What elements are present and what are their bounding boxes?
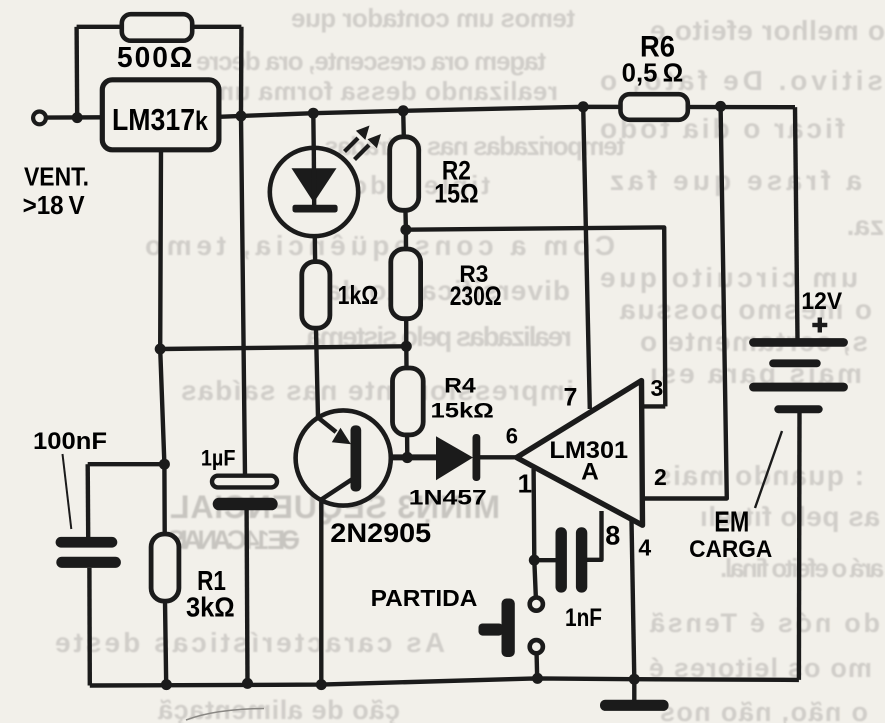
wire op-amp pin 2 stub and riser to supply bus: [642, 106, 727, 498]
svg-text:2N2905: 2N2905: [330, 518, 431, 548]
wire ground symbol stub: [632, 679, 636, 701]
wire 100nF bottom lead to ground bus corner: [87, 568, 92, 686]
capacitor 1nF plate 1: [556, 527, 567, 592]
pushbutton S1 actuator stem: [479, 624, 504, 636]
LED D1 light arrow 2: [355, 145, 370, 160]
svg-text:7: 7: [564, 383, 578, 411]
wire R2-R3 node to op-amp pin 3: [406, 227, 665, 406]
capacitor C 1uF top plate (hollow): [212, 476, 277, 488]
svg-text:za.: za.: [847, 210, 884, 241]
svg-text:1µF: 1µF: [201, 445, 236, 470]
transistor Q1 2N2905 circle: [296, 410, 391, 505]
LED D1 vertical lead inside: [312, 150, 317, 208]
svg-text:>18 V: >18 V: [23, 192, 85, 220]
resistor 1k body: [302, 262, 330, 329]
node: pin4 / ground symbol: [629, 674, 640, 685]
transistor Q1 base bar: [351, 425, 362, 491]
resistor R4 body: [393, 368, 424, 435]
resistor 500 ohm body: [122, 14, 192, 41]
wire transistor collector to ground bus: [319, 500, 323, 685]
transistor Q1 collector lead: [321, 478, 354, 500]
wire diode cathode to op-amp output pin 6: [479, 455, 518, 459]
wire 500-ohm loop right drop to output node: [239, 27, 244, 116]
wire op-amp pin 4 down to ground bus: [632, 520, 635, 679]
pushbutton S1 top terminal: [530, 598, 543, 611]
wire 1uF bottom lead to ground bus: [244, 510, 249, 683]
node: pin2 supply tap: [715, 101, 726, 112]
svg-text:VENT.: VENT.: [24, 164, 89, 192]
battery B1 plate 3 long: [749, 383, 848, 392]
wire 500-ohm feedback loop top: [77, 25, 242, 29]
svg-text:: quando mais: : quando mais: [656, 460, 864, 491]
svg-text:LM317k: LM317k: [112, 102, 209, 137]
wire button bottom terminal to ground bus: [534, 655, 539, 679]
wire 100nF tap from ADJ line: [88, 462, 165, 466]
svg-text:1N457: 1N457: [409, 486, 487, 510]
diode D2 1N457 cathode bar: [473, 434, 481, 481]
node: 100nF tap on ADJ line: [159, 459, 170, 470]
resistor R6 body: [621, 94, 688, 120]
LED D1 anode triangle: [292, 168, 337, 202]
svg-text:500Ω: 500Ω: [117, 42, 194, 74]
svg-text:R4: R4: [444, 373, 476, 397]
resistor R2 body: [390, 137, 419, 211]
node: pin7 supply tap: [578, 101, 589, 112]
wire 1nF right plate to pin 8: [586, 511, 602, 560]
node: 1uF ground: [242, 678, 253, 689]
battery B1 plate 2 short: [769, 359, 821, 367]
node: R1 ground: [161, 679, 172, 690]
capacitor 1nF plate 2: [576, 527, 587, 592]
node: input / 500-ohm / LM317 in: [72, 112, 83, 123]
capacitor 100nF plate 2: [56, 557, 121, 568]
wire 500-ohm feedback loop left riser: [74, 27, 79, 118]
LED D1 light arrow 1: [345, 138, 359, 152]
svg-text:1: 1: [518, 468, 532, 498]
svg-text:1kΩ: 1kΩ: [338, 280, 379, 310]
wire op-amp pin 3 stub: [642, 404, 665, 408]
op-amp U2 LM301A triangle: [517, 381, 643, 526]
svg-text:a frase que faz: a frase que faz: [610, 165, 862, 196]
wire supply bus right corner down to battery +: [795, 107, 798, 340]
svg-text:CARGA: CARGA: [689, 536, 772, 563]
battery B1 plate 4 short: [774, 405, 822, 413]
wire op-amp pin 7 up to supply bus: [583, 107, 590, 409]
wire LED / 1k / transistor emitter branch: [313, 113, 318, 417]
svg-text:ção de alimentaçã: ção de alimentaçã: [157, 695, 400, 723]
node: R2 / R3 / pin3 line: [400, 224, 411, 235]
svg-text:A: A: [581, 458, 599, 485]
faint scratch mark bottom left: [186, 709, 264, 721]
node: R2 top tap: [398, 105, 409, 116]
decorative bleed-through text from reverse page: [0, 0, 1, 1]
svg-text:do nós é Tensã: do nós é Tensã: [649, 608, 880, 638]
wire 100nF top lead: [85, 464, 90, 537]
resistor R1 body: [151, 534, 179, 601]
svg-text:8: 8: [605, 520, 620, 550]
svg-text:15Ω: 15Ω: [434, 179, 479, 209]
LED D1 circle: [270, 148, 358, 236]
wire pin-1 node to 1nF left plate: [534, 558, 556, 562]
node: LM317 out / 500-ohm / 1uF: [236, 111, 247, 122]
svg-text:EM: EM: [714, 507, 749, 539]
pushbutton S1 actuator bar: [502, 599, 515, 658]
node: collector ground: [316, 679, 327, 690]
battery plus sign: [818, 318, 822, 333]
capacitor C 1uF bottom plate: [213, 498, 278, 511]
node: base / R4 / diode: [402, 452, 413, 463]
svg-text:temos um contador que: temos um contador que: [291, 3, 575, 33]
node: R3 / R4 / tie line: [401, 341, 412, 352]
pushbutton S1 bottom terminal: [530, 640, 543, 653]
svg-text:realizando dessa forma uma: realizando dessa forma uma: [195, 76, 558, 106]
LED D1 cathode bar: [293, 205, 338, 213]
svg-text:ƏE 14 CANAIS: ƏE 14 CANAIS: [167, 525, 300, 555]
svg-text:0,5 Ω: 0,5 Ω: [622, 60, 684, 88]
input terminal circle VENT: [33, 112, 46, 125]
svg-text:100nF: 100nF: [33, 428, 107, 455]
wire ADJ to R3/R4 tie line: [160, 346, 406, 349]
svg-text:impressionante nas saídas: impressionante nas saídas: [181, 375, 574, 406]
battery label leader line EM CARGA: [755, 431, 782, 508]
node: LED branch tap: [308, 108, 319, 119]
svg-text:3: 3: [651, 375, 664, 401]
resistor R3 body: [391, 249, 421, 319]
wire transistor base to diode (thick): [360, 454, 437, 460]
diode D2 1N457 anode triangle: [436, 436, 473, 480]
svg-text:15kΩ: 15kΩ: [431, 399, 494, 423]
wire 1uF top lead from regulator output node: [241, 116, 245, 476]
capacitor 100nF plate 1: [56, 537, 118, 548]
wire LM317 ADJ line down through R1 to ground bus: [160, 148, 166, 685]
wire op-amp pin 1 down to start button node: [534, 469, 536, 596]
wire bottom ground bus: [90, 678, 799, 685]
node: pin1 / 1nF / button: [529, 555, 540, 566]
regulator U1 LM317K body: [102, 80, 219, 150]
svg-text:tagem ora crescente, ora decre: tagem ora crescente, ora decre: [196, 46, 546, 76]
capacitor 100nF label leader line: [63, 454, 72, 529]
svg-text:12V: 12V: [801, 288, 842, 315]
wire battery - down to ground bus corner: [797, 412, 802, 680]
node: ADJ / tie line: [155, 344, 166, 355]
svg-text:o melhor efeito e: o melhor efeito e: [650, 15, 885, 46]
node: button ground: [532, 673, 543, 684]
svg-text:6: 6: [506, 424, 518, 449]
svg-text:2: 2: [654, 464, 667, 490]
svg-text:3kΩ: 3kΩ: [186, 592, 235, 623]
battery B1 12V plate 1 long: [749, 338, 848, 347]
svg-text:230Ω: 230Ω: [450, 281, 502, 311]
svg-text:PARTIDA: PARTIDA: [371, 585, 478, 611]
wire top supply bus from input to top-right corner: [46, 107, 795, 118]
ground symbol: [600, 700, 669, 711]
svg-text:4: 4: [638, 534, 651, 560]
transistor Q1 emitter lead with arrow: [318, 418, 336, 433]
wire R2/R3 branch: [403, 111, 407, 458]
svg-text:o não, não nos: o não, não nos: [660, 697, 868, 723]
svg-text:1nF: 1nF: [565, 604, 602, 632]
